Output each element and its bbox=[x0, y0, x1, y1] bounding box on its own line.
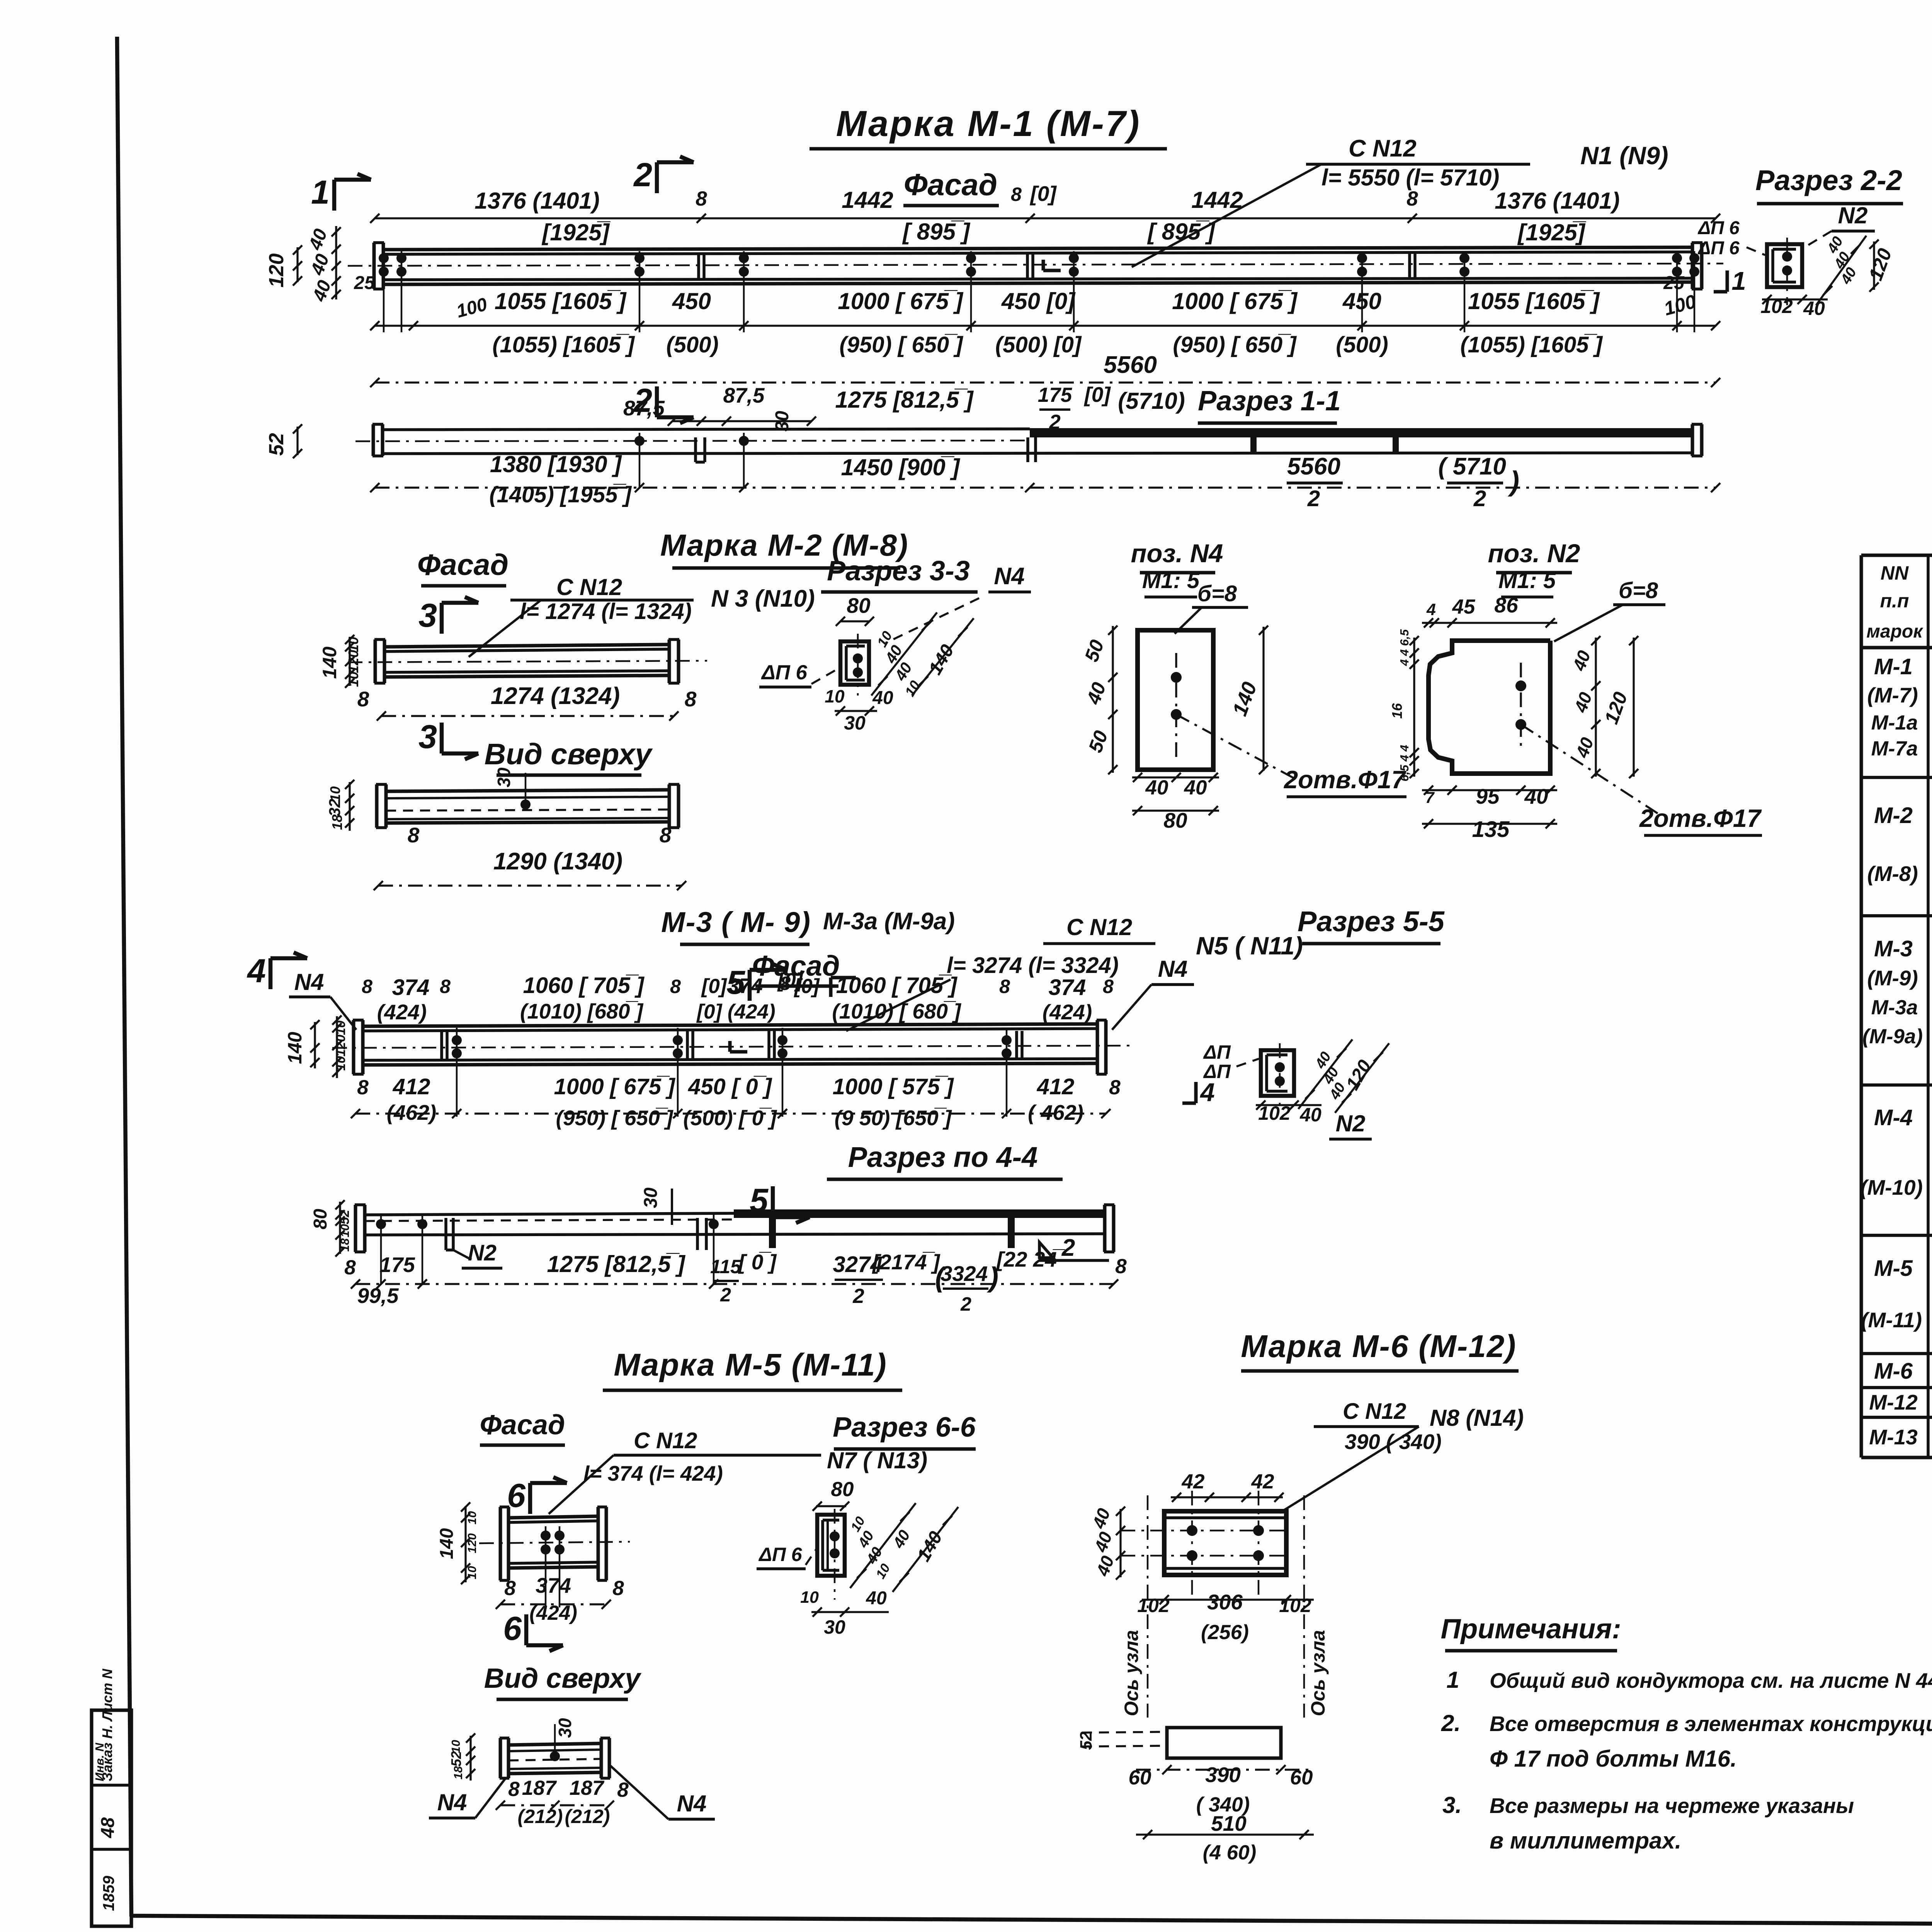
svg-text:N1 (N9): N1 (N9) bbox=[1580, 141, 1668, 170]
beam M-2 centerline bbox=[348, 661, 707, 662]
svg-text:2: 2 bbox=[1473, 486, 1486, 511]
svg-text:120: 120 bbox=[345, 650, 361, 673]
svg-text:30: 30 bbox=[494, 767, 514, 787]
svg-text:N2: N2 bbox=[1336, 1111, 1366, 1136]
razrez 4-4 mid stiffener bbox=[696, 1218, 699, 1250]
beam M-2 top view bbox=[375, 784, 379, 828]
dims below M-6 plate bbox=[1142, 1599, 1314, 1600]
svg-text:l= 3274 (l= 3324): l= 3274 (l= 3324) bbox=[947, 953, 1119, 978]
svg-text:N5 ( N11): N5 ( N11) bbox=[1196, 932, 1303, 960]
bottom-left revision stamp bbox=[92, 1710, 131, 1926]
svg-text:С N12: С N12 bbox=[1349, 135, 1417, 162]
svg-text:450 [ 0̅ ]: 450 [ 0̅ ] bbox=[688, 1074, 772, 1099]
svg-text:М-5: М-5 bbox=[1874, 1256, 1913, 1281]
svg-text:3324: 3324 bbox=[940, 1262, 988, 1286]
section cut mark 4 (right, bottom) bbox=[1194, 1082, 1198, 1103]
svg-text:10: 10 bbox=[465, 1566, 479, 1579]
section cut mark 6 (top) bbox=[528, 1483, 532, 1514]
svg-text:(500) [ 0̅ ]: (500) [ 0̅ ] bbox=[683, 1106, 777, 1130]
svg-text:450: 450 bbox=[1342, 288, 1381, 314]
svg-text:8: 8 bbox=[357, 687, 369, 711]
svg-text:(950) [ 650̅ ]: (950) [ 650̅ ] bbox=[556, 1106, 673, 1130]
svg-text:8: 8 bbox=[344, 1256, 356, 1279]
svg-text:1: 1 bbox=[1731, 267, 1746, 296]
bottom dims razrez 4-4 bbox=[355, 1283, 1114, 1285]
spec table outer and header lines bbox=[1861, 554, 1932, 557]
section cut mark 1 (right end) bbox=[1726, 270, 1729, 292]
svg-text:115: 115 bbox=[710, 1256, 742, 1277]
svg-text:1000 [ 575̅ ]: 1000 [ 575̅ ] bbox=[833, 1074, 954, 1099]
section cut mark 2 (top) bbox=[655, 162, 659, 193]
corner bracket mark (M-3 mid top) bbox=[829, 978, 833, 997]
svg-text:Разрез 5-5: Разрез 5-5 bbox=[1298, 905, 1445, 937]
svg-text:Фасад: Фасад bbox=[480, 1410, 565, 1440]
svg-text:ΔΠ 6: ΔΠ 6 bbox=[1697, 238, 1740, 259]
svg-text:45: 45 bbox=[1452, 595, 1476, 618]
razrez 1-1 thick hangers bbox=[1250, 437, 1257, 454]
svg-text:25: 25 bbox=[1663, 273, 1685, 293]
svg-text:120: 120 bbox=[265, 253, 288, 287]
svg-text:N4: N4 bbox=[677, 1791, 707, 1816]
spec table vertical lines bbox=[1927, 555, 1930, 1458]
svg-text:16: 16 bbox=[1389, 703, 1405, 719]
M-6 plate with bolts bbox=[1164, 1511, 1286, 1575]
M-6 bolt centerlines bbox=[1191, 1491, 1193, 1596]
svg-text:п.п: п.п bbox=[1880, 590, 1909, 612]
corner mark mid M-3 bbox=[728, 1041, 732, 1052]
poz N2 channel profile bbox=[1429, 641, 1550, 774]
beam M-5 top view bbox=[499, 1738, 502, 1778]
svg-text:30: 30 bbox=[555, 1718, 575, 1738]
svg-text:N4: N4 bbox=[294, 969, 324, 995]
section cut mark 5 (top) bbox=[748, 970, 752, 1001]
svg-text:(М-8): (М-8) bbox=[1867, 862, 1918, 886]
svg-text:2: 2 bbox=[1061, 1235, 1075, 1261]
svg-text:5560: 5560 bbox=[1104, 352, 1157, 378]
svg-text:1380 [1930̅ ]: 1380 [1930̅ ] bbox=[490, 451, 622, 477]
poz N2 bottom dims bbox=[1422, 789, 1557, 791]
svg-text:(424): (424) bbox=[377, 1000, 427, 1024]
svg-text:Примечания:: Примечания: bbox=[1440, 1614, 1621, 1645]
labels ДП б (razrez 2-2) leader bbox=[1747, 247, 1765, 255]
svg-text:52: 52 bbox=[337, 1210, 352, 1225]
svg-text:(9 50) [650̅ ]: (9 50) [650̅ ] bbox=[835, 1106, 952, 1130]
poz N4 bottom dims bbox=[1132, 776, 1219, 778]
razrez 1-1 bottom dims bbox=[375, 486, 1716, 488]
svg-text:(424): (424) bbox=[1043, 1000, 1092, 1024]
svg-text:120: 120 bbox=[333, 1035, 348, 1057]
svg-text:18: 18 bbox=[338, 1238, 352, 1252]
beam M-3 elevation bbox=[352, 1020, 355, 1074]
left vertical dims M-2 bbox=[349, 637, 350, 686]
svg-text:18: 18 bbox=[329, 815, 345, 830]
razrez 1-1 thick channel flange (right half) bbox=[1030, 428, 1692, 437]
svg-text:87,5: 87,5 bbox=[723, 383, 765, 407]
svg-text:N4: N4 bbox=[994, 563, 1024, 590]
svg-text:8: 8 bbox=[1109, 1076, 1121, 1099]
svg-text:1275 [812,5̅ ]: 1275 [812,5̅ ] bbox=[835, 387, 974, 413]
svg-text:б=8: б=8 bbox=[1619, 578, 1658, 603]
svg-text:2: 2 bbox=[633, 156, 652, 194]
svg-text:374: 374 bbox=[1049, 975, 1086, 1000]
svg-text:1000 [ 675̅ ]: 1000 [ 675̅ ] bbox=[554, 1074, 675, 1099]
svg-text:ΔΠ 6: ΔΠ 6 bbox=[1697, 218, 1740, 238]
svg-text:6,5 4 4: 6,5 4 4 bbox=[1398, 745, 1411, 782]
section cut mark 5 (bottom) bbox=[771, 1186, 775, 1217]
svg-text:Все отверстия в элементах: Все отверстия в элементах конструкции bbox=[1490, 1712, 1932, 1736]
svg-text:8: 8 bbox=[362, 976, 372, 997]
svg-text:40: 40 bbox=[1145, 776, 1168, 799]
svg-text:3: 3 bbox=[418, 718, 437, 755]
svg-text:1450 [900̅ ]: 1450 [900̅ ] bbox=[841, 454, 961, 480]
spec table group separator lines bbox=[1861, 776, 1932, 779]
svg-text:[0]: [0] bbox=[794, 975, 820, 998]
svg-text:60: 60 bbox=[1290, 1766, 1313, 1789]
beam M-1 centerline bbox=[348, 264, 1723, 266]
svg-text:М-1а: М-1а bbox=[1871, 711, 1918, 734]
svg-text:80: 80 bbox=[847, 594, 871, 617]
svg-text:марок: марок bbox=[1866, 621, 1923, 642]
svg-text:8: 8 bbox=[780, 973, 791, 994]
svg-text:306: 306 bbox=[1207, 1590, 1243, 1614]
svg-text:(950) [ 650̅ ]: (950) [ 650̅ ] bbox=[1173, 332, 1297, 357]
svg-text:(500) [0]: (500) [0] bbox=[995, 332, 1082, 357]
beam M-5 centerline bbox=[479, 1542, 630, 1543]
svg-text:187: 187 bbox=[522, 1777, 557, 1799]
svg-text:1: 1 bbox=[311, 174, 330, 211]
svg-text:( 5710: ( 5710 bbox=[1438, 453, 1506, 480]
svg-text:(1055) [1605̅ ]: (1055) [1605̅ ] bbox=[492, 332, 635, 357]
svg-text:поз. N4: поз. N4 bbox=[1131, 539, 1223, 568]
poz N2 right dims bbox=[1595, 638, 1597, 777]
svg-text:(5710): (5710) bbox=[1118, 388, 1185, 414]
svg-text:1290 (1340): 1290 (1340) bbox=[493, 848, 622, 875]
svg-text:М1: 5: М1: 5 bbox=[1142, 568, 1200, 593]
svg-text:80: 80 bbox=[831, 1478, 854, 1501]
poz N4 bolts and centerline bbox=[1175, 653, 1177, 758]
svg-text:135: 135 bbox=[1472, 817, 1510, 842]
svg-text:ΔΠ 6: ΔΠ 6 bbox=[758, 1544, 802, 1565]
svg-text:5560: 5560 bbox=[1287, 453, 1340, 480]
razrez 6-6 channel section bbox=[817, 1515, 845, 1576]
svg-text:в миллиметрах.: в миллиметрах. bbox=[1490, 1828, 1681, 1854]
svg-text:10: 10 bbox=[825, 686, 845, 706]
svg-text:[0]: [0] bbox=[701, 975, 728, 998]
svg-text:10: 10 bbox=[800, 1588, 819, 1607]
razrez 3-3 channel section bbox=[840, 641, 869, 685]
svg-text:М-3: М-3 bbox=[1874, 936, 1913, 961]
svg-text:Фасад: Фасад bbox=[904, 167, 997, 202]
svg-text:[22 24̅: [22 24̅ bbox=[996, 1247, 1065, 1271]
razrez 2-2 channel section bbox=[1767, 244, 1802, 287]
svg-text:8: 8 bbox=[670, 976, 681, 997]
svg-text:С N12: С N12 bbox=[634, 1428, 697, 1453]
svg-text:2отв.Ф17: 2отв.Ф17 bbox=[1283, 765, 1406, 794]
svg-text:40: 40 bbox=[1184, 776, 1207, 799]
bolt on M-2 top view bbox=[520, 799, 531, 810]
dims above M-6 plate bbox=[1171, 1496, 1283, 1498]
svg-text:40: 40 bbox=[866, 1588, 887, 1609]
svg-text:1274 (1324): 1274 (1324) bbox=[491, 683, 620, 709]
svg-text:187: 187 bbox=[570, 1777, 605, 1799]
stiffeners M-3 bbox=[440, 1031, 443, 1060]
svg-text:Вид сверху: Вид сверху bbox=[485, 738, 653, 771]
svg-text:40: 40 bbox=[1524, 784, 1548, 808]
razrez 4-4 thick channel flange (right half) bbox=[734, 1209, 1105, 1218]
svg-text:l= 1274 (l= 1324): l= 1274 (l= 1324) bbox=[520, 599, 692, 624]
svg-text:60: 60 bbox=[1129, 1766, 1151, 1789]
svg-text:8: 8 bbox=[508, 1778, 520, 1801]
svg-text:М-12: М-12 bbox=[1869, 1390, 1918, 1414]
svg-text:175: 175 bbox=[1038, 384, 1073, 406]
svg-text:Общий вид кондуктора см. на: Общий вид кондуктора см. на листе N 44 bbox=[1490, 1668, 1932, 1692]
left vertical dims razrez 4-4 bbox=[339, 1202, 341, 1254]
left vertical dim 52 (razrez 1-1) bbox=[296, 427, 298, 455]
svg-text:N8 (N14): N8 (N14) bbox=[1430, 1405, 1524, 1431]
svg-text:М-2: М-2 bbox=[1874, 803, 1913, 828]
poz N2 bolts and leaders bbox=[1520, 663, 1522, 750]
svg-text:Разрез по 4-4: Разрез по 4-4 bbox=[848, 1141, 1038, 1173]
svg-text:(1010) [ 680̅ ]: (1010) [ 680̅ ] bbox=[832, 999, 961, 1023]
svg-text:80: 80 bbox=[1163, 808, 1187, 832]
svg-text:1275 [812,5̅ ]: 1275 [812,5̅ ] bbox=[547, 1251, 686, 1277]
svg-text:4: 4 bbox=[1199, 1078, 1214, 1107]
M-6 bottom view bbox=[1167, 1728, 1281, 1758]
svg-text:( 462): ( 462) bbox=[1028, 1100, 1083, 1124]
svg-text:Разрез 1-1: Разрез 1-1 bbox=[1198, 386, 1341, 417]
svg-text:М-4: М-4 bbox=[1874, 1105, 1913, 1130]
svg-text:8: 8 bbox=[999, 976, 1010, 997]
svg-text:52: 52 bbox=[1077, 1731, 1095, 1750]
overall dim 5560 (5710) M-1 bbox=[375, 381, 1716, 383]
svg-text:510: 510 bbox=[1211, 1811, 1247, 1835]
svg-text:Марка М-1 (М-7): Марка М-1 (М-7) bbox=[836, 103, 1141, 144]
svg-text:(500): (500) bbox=[666, 332, 718, 357]
svg-text:8: 8 bbox=[357, 1076, 369, 1099]
svg-text:(500): (500) bbox=[1336, 332, 1388, 357]
beam M-1 elevation bbox=[372, 243, 376, 289]
svg-text:8: 8 bbox=[1011, 184, 1022, 205]
svg-text:30: 30 bbox=[824, 1616, 845, 1638]
svg-text:С N12: С N12 bbox=[1066, 914, 1132, 940]
razrez 4-4 bolts bbox=[380, 1213, 382, 1284]
svg-text:М-6: М-6 bbox=[1874, 1359, 1913, 1384]
svg-text:М-3а: М-3а bbox=[1871, 996, 1918, 1019]
svg-text:N 3 (N10): N 3 (N10) bbox=[711, 585, 815, 612]
svg-text:8: 8 bbox=[1103, 976, 1114, 997]
bolt M-5 top view bbox=[550, 1751, 560, 1761]
svg-text:1859: 1859 bbox=[100, 1876, 117, 1911]
svg-text:374: 374 bbox=[536, 1573, 571, 1597]
svg-text:Ф 17 под болты М16.: Ф 17 под болты М16. bbox=[1490, 1746, 1737, 1772]
svg-text:[2174̅ ]: [2174̅ ] bbox=[872, 1250, 940, 1274]
bolt columns M-1 bbox=[383, 251, 385, 332]
svg-text:С N12: С N12 bbox=[556, 574, 622, 600]
bolts M-5 bbox=[545, 1526, 547, 1607]
svg-text:1055 [1605̅ ]: 1055 [1605̅ ] bbox=[1468, 288, 1600, 314]
svg-text:Вид сверху: Вид сверху bbox=[484, 1663, 642, 1694]
svg-text:[1925̅]: [1925̅] bbox=[541, 219, 611, 245]
poz N4 left dims bbox=[1112, 626, 1114, 773]
poz N4 right dim 140 bbox=[1262, 627, 1264, 771]
sheet bottom border line bbox=[131, 1916, 1932, 1927]
svg-text:(1405) [1955̅ ]: (1405) [1955̅ ] bbox=[489, 482, 632, 507]
poz N2 left small dims bbox=[1413, 638, 1415, 777]
svg-text:N4: N4 bbox=[437, 1789, 467, 1815]
svg-text:52: 52 bbox=[265, 433, 288, 456]
svg-text:2: 2 bbox=[1307, 486, 1320, 511]
svg-text:32: 32 bbox=[326, 799, 344, 816]
bolt columns M-3 bbox=[456, 1028, 458, 1117]
svg-text:2: 2 bbox=[720, 1284, 731, 1306]
svg-text:390: 390 bbox=[1205, 1763, 1241, 1787]
svg-text:412: 412 bbox=[1037, 1074, 1075, 1099]
svg-text:120: 120 bbox=[465, 1533, 479, 1553]
svg-text:8: 8 bbox=[440, 976, 451, 997]
left vertical dims M-1 (120, 40s) bbox=[296, 247, 298, 282]
svg-text:140: 140 bbox=[437, 1528, 457, 1559]
dims below M-6 bottom view bbox=[1136, 1769, 1314, 1770]
beam M-5 elevation bbox=[499, 1507, 502, 1580]
svg-text:10: 10 bbox=[465, 1511, 479, 1524]
svg-text:ΔΠ 6: ΔΠ 6 bbox=[761, 661, 807, 684]
svg-text:Марка М-6 (М-12): Марка М-6 (М-12) bbox=[1241, 1329, 1516, 1364]
section cut mark 4 (left) bbox=[269, 958, 273, 989]
svg-text:(М-9а): (М-9а) bbox=[1862, 1025, 1923, 1048]
svg-text:1442: 1442 bbox=[842, 187, 893, 213]
section cut mark 2 (bottom) bbox=[655, 386, 659, 417]
svg-text:52: 52 bbox=[448, 1751, 464, 1767]
svg-text:80: 80 bbox=[310, 1209, 331, 1230]
svg-text:М-1: М-1 bbox=[1874, 654, 1913, 679]
svg-text:8: 8 bbox=[408, 823, 420, 847]
left vertical dims M-5 bbox=[464, 1506, 466, 1582]
section cut mark 1 (top) bbox=[332, 180, 337, 211]
svg-text:412: 412 bbox=[393, 1074, 430, 1099]
svg-text:(М-10): (М-10) bbox=[1860, 1175, 1923, 1199]
left vertical dims M-2 top view bbox=[349, 782, 350, 831]
svg-text:(М-7): (М-7) bbox=[1867, 683, 1918, 707]
svg-text:[0] (424): [0] (424) bbox=[696, 1000, 775, 1023]
svg-text:(462): (462) bbox=[387, 1100, 436, 1124]
svg-text:1: 1 bbox=[1446, 1667, 1459, 1693]
svg-text:1000 [ 675̅ ]: 1000 [ 675̅ ] bbox=[838, 288, 964, 314]
svg-text:1060 [ 705̅ ]: 1060 [ 705̅ ] bbox=[836, 973, 957, 998]
svg-text:ΔΠ: ΔΠ bbox=[1203, 1041, 1231, 1063]
axis lines Ось узла (M-6) bbox=[1147, 1495, 1149, 1718]
svg-text:[1925̅]: [1925̅] bbox=[1517, 219, 1586, 245]
svg-text:2: 2 bbox=[852, 1285, 864, 1308]
razrez 1-1 drawing (M-1 plan/section) bbox=[372, 424, 375, 456]
svg-text:3: 3 bbox=[418, 597, 437, 634]
svg-text:8: 8 bbox=[612, 1577, 624, 1600]
svg-text:С N12: С N12 bbox=[1343, 1399, 1406, 1424]
razrez 5-5 channel section bbox=[1261, 1050, 1294, 1096]
stiffener M-1 at x2666 bbox=[1026, 254, 1029, 278]
svg-text:[0]: [0] bbox=[1029, 182, 1057, 206]
svg-text:1000 [ 675̅ ]: 1000 [ 675̅ ] bbox=[1172, 288, 1298, 314]
svg-text:374: 374 bbox=[392, 975, 430, 1000]
svg-text:2.: 2. bbox=[1441, 1710, 1461, 1736]
svg-text:42: 42 bbox=[1182, 1470, 1205, 1493]
left vertical dims M-3 bbox=[314, 1022, 316, 1068]
svg-text:М-7а: М-7а bbox=[1871, 737, 1918, 760]
beam M-2 elevation bbox=[374, 639, 377, 683]
svg-text:7: 7 bbox=[1425, 789, 1435, 806]
svg-text:4: 4 bbox=[1426, 600, 1436, 619]
svg-text:Фасад: Фасад bbox=[417, 548, 509, 582]
beam M-3 centerline bbox=[332, 1046, 1132, 1048]
svg-text:30: 30 bbox=[844, 712, 866, 734]
svg-text:М1: 5: М1: 5 bbox=[1498, 568, 1556, 593]
svg-text:175: 175 bbox=[379, 1253, 415, 1277]
left vertical dims M-5 top view bbox=[469, 1736, 471, 1781]
svg-text:8: 8 bbox=[660, 823, 672, 847]
stiffener M-1 at x1815 bbox=[697, 254, 700, 278]
svg-text:374: 374 bbox=[727, 974, 763, 998]
svg-text:(М-11): (М-11) bbox=[1861, 1308, 1922, 1332]
mark triangle 2 (razrez 4-4) bbox=[1039, 1242, 1053, 1258]
svg-text:42: 42 bbox=[1251, 1470, 1274, 1493]
section cut mark 6 (bottom) bbox=[524, 1614, 529, 1645]
svg-text:48: 48 bbox=[98, 1817, 118, 1838]
razrez 4-4 thick hangers bbox=[769, 1218, 776, 1248]
svg-text:450: 450 bbox=[672, 288, 711, 314]
svg-text:(950) [ 650̅ ]: (950) [ 650̅ ] bbox=[839, 332, 963, 357]
razrez 4-4 U stiffener with N2 leader bbox=[444, 1218, 447, 1250]
svg-text:8: 8 bbox=[1115, 1255, 1127, 1278]
svg-text:б=8: б=8 bbox=[1197, 581, 1237, 606]
svg-text:[ 895̅ ]: [ 895̅ ] bbox=[1147, 219, 1215, 245]
svg-text:(212): (212) bbox=[565, 1806, 610, 1827]
svg-text:Ось узла: Ось узла bbox=[1307, 1630, 1329, 1716]
left dims M-6 bbox=[1119, 1509, 1121, 1577]
razrez 1-1 U stiffener mark bbox=[694, 437, 697, 462]
svg-text:10: 10 bbox=[345, 672, 361, 687]
svg-text:Инв. N: Инв. N bbox=[93, 1743, 106, 1781]
razrez 1-1 centerline bbox=[355, 440, 1030, 441]
svg-text:40: 40 bbox=[1299, 1104, 1321, 1126]
svg-text:(212): (212) bbox=[518, 1806, 563, 1827]
svg-text:NN: NN bbox=[1881, 562, 1909, 584]
svg-text:Марка М-5 (М-11): Марка М-5 (М-11) bbox=[614, 1347, 887, 1383]
svg-text:Разрез 6-6: Разрез 6-6 bbox=[833, 1412, 976, 1443]
svg-text:Разрез 2-2: Разрез 2-2 bbox=[1755, 164, 1902, 196]
sheet left border line bbox=[117, 37, 131, 1917]
svg-text:Разрез 3-3: Разрез 3-3 bbox=[827, 556, 970, 587]
section cut mark 3 (bottom) bbox=[440, 723, 444, 753]
svg-text:N7 ( N13): N7 ( N13) bbox=[827, 1447, 927, 1473]
svg-text:1442: 1442 bbox=[1191, 187, 1243, 213]
svg-text:102: 102 bbox=[1137, 1595, 1170, 1616]
svg-text:8: 8 bbox=[685, 687, 697, 711]
razrez 1-1 mid stiffener mark bbox=[1026, 437, 1029, 462]
razrez 1-1 bolts bbox=[639, 433, 641, 488]
stiffener M-1 at x3655 bbox=[1408, 253, 1411, 277]
razrez 4-4 centerline dash bbox=[365, 1219, 734, 1221]
svg-text:10: 10 bbox=[333, 1056, 348, 1071]
svg-text:поз. N2: поз. N2 bbox=[1488, 539, 1580, 568]
svg-text:1376 (1401): 1376 (1401) bbox=[474, 188, 600, 214]
svg-text:N2: N2 bbox=[1838, 202, 1868, 228]
svg-text:10: 10 bbox=[333, 1020, 348, 1035]
svg-text:140: 140 bbox=[319, 646, 340, 679]
svg-text:1376 (1401): 1376 (1401) bbox=[1495, 188, 1620, 214]
svg-text:102: 102 bbox=[1279, 1595, 1311, 1616]
svg-text:(1055) [1605̅ ]: (1055) [1605̅ ] bbox=[1460, 332, 1603, 357]
svg-text:95: 95 bbox=[1476, 784, 1500, 808]
svg-text:6: 6 bbox=[503, 1610, 522, 1647]
